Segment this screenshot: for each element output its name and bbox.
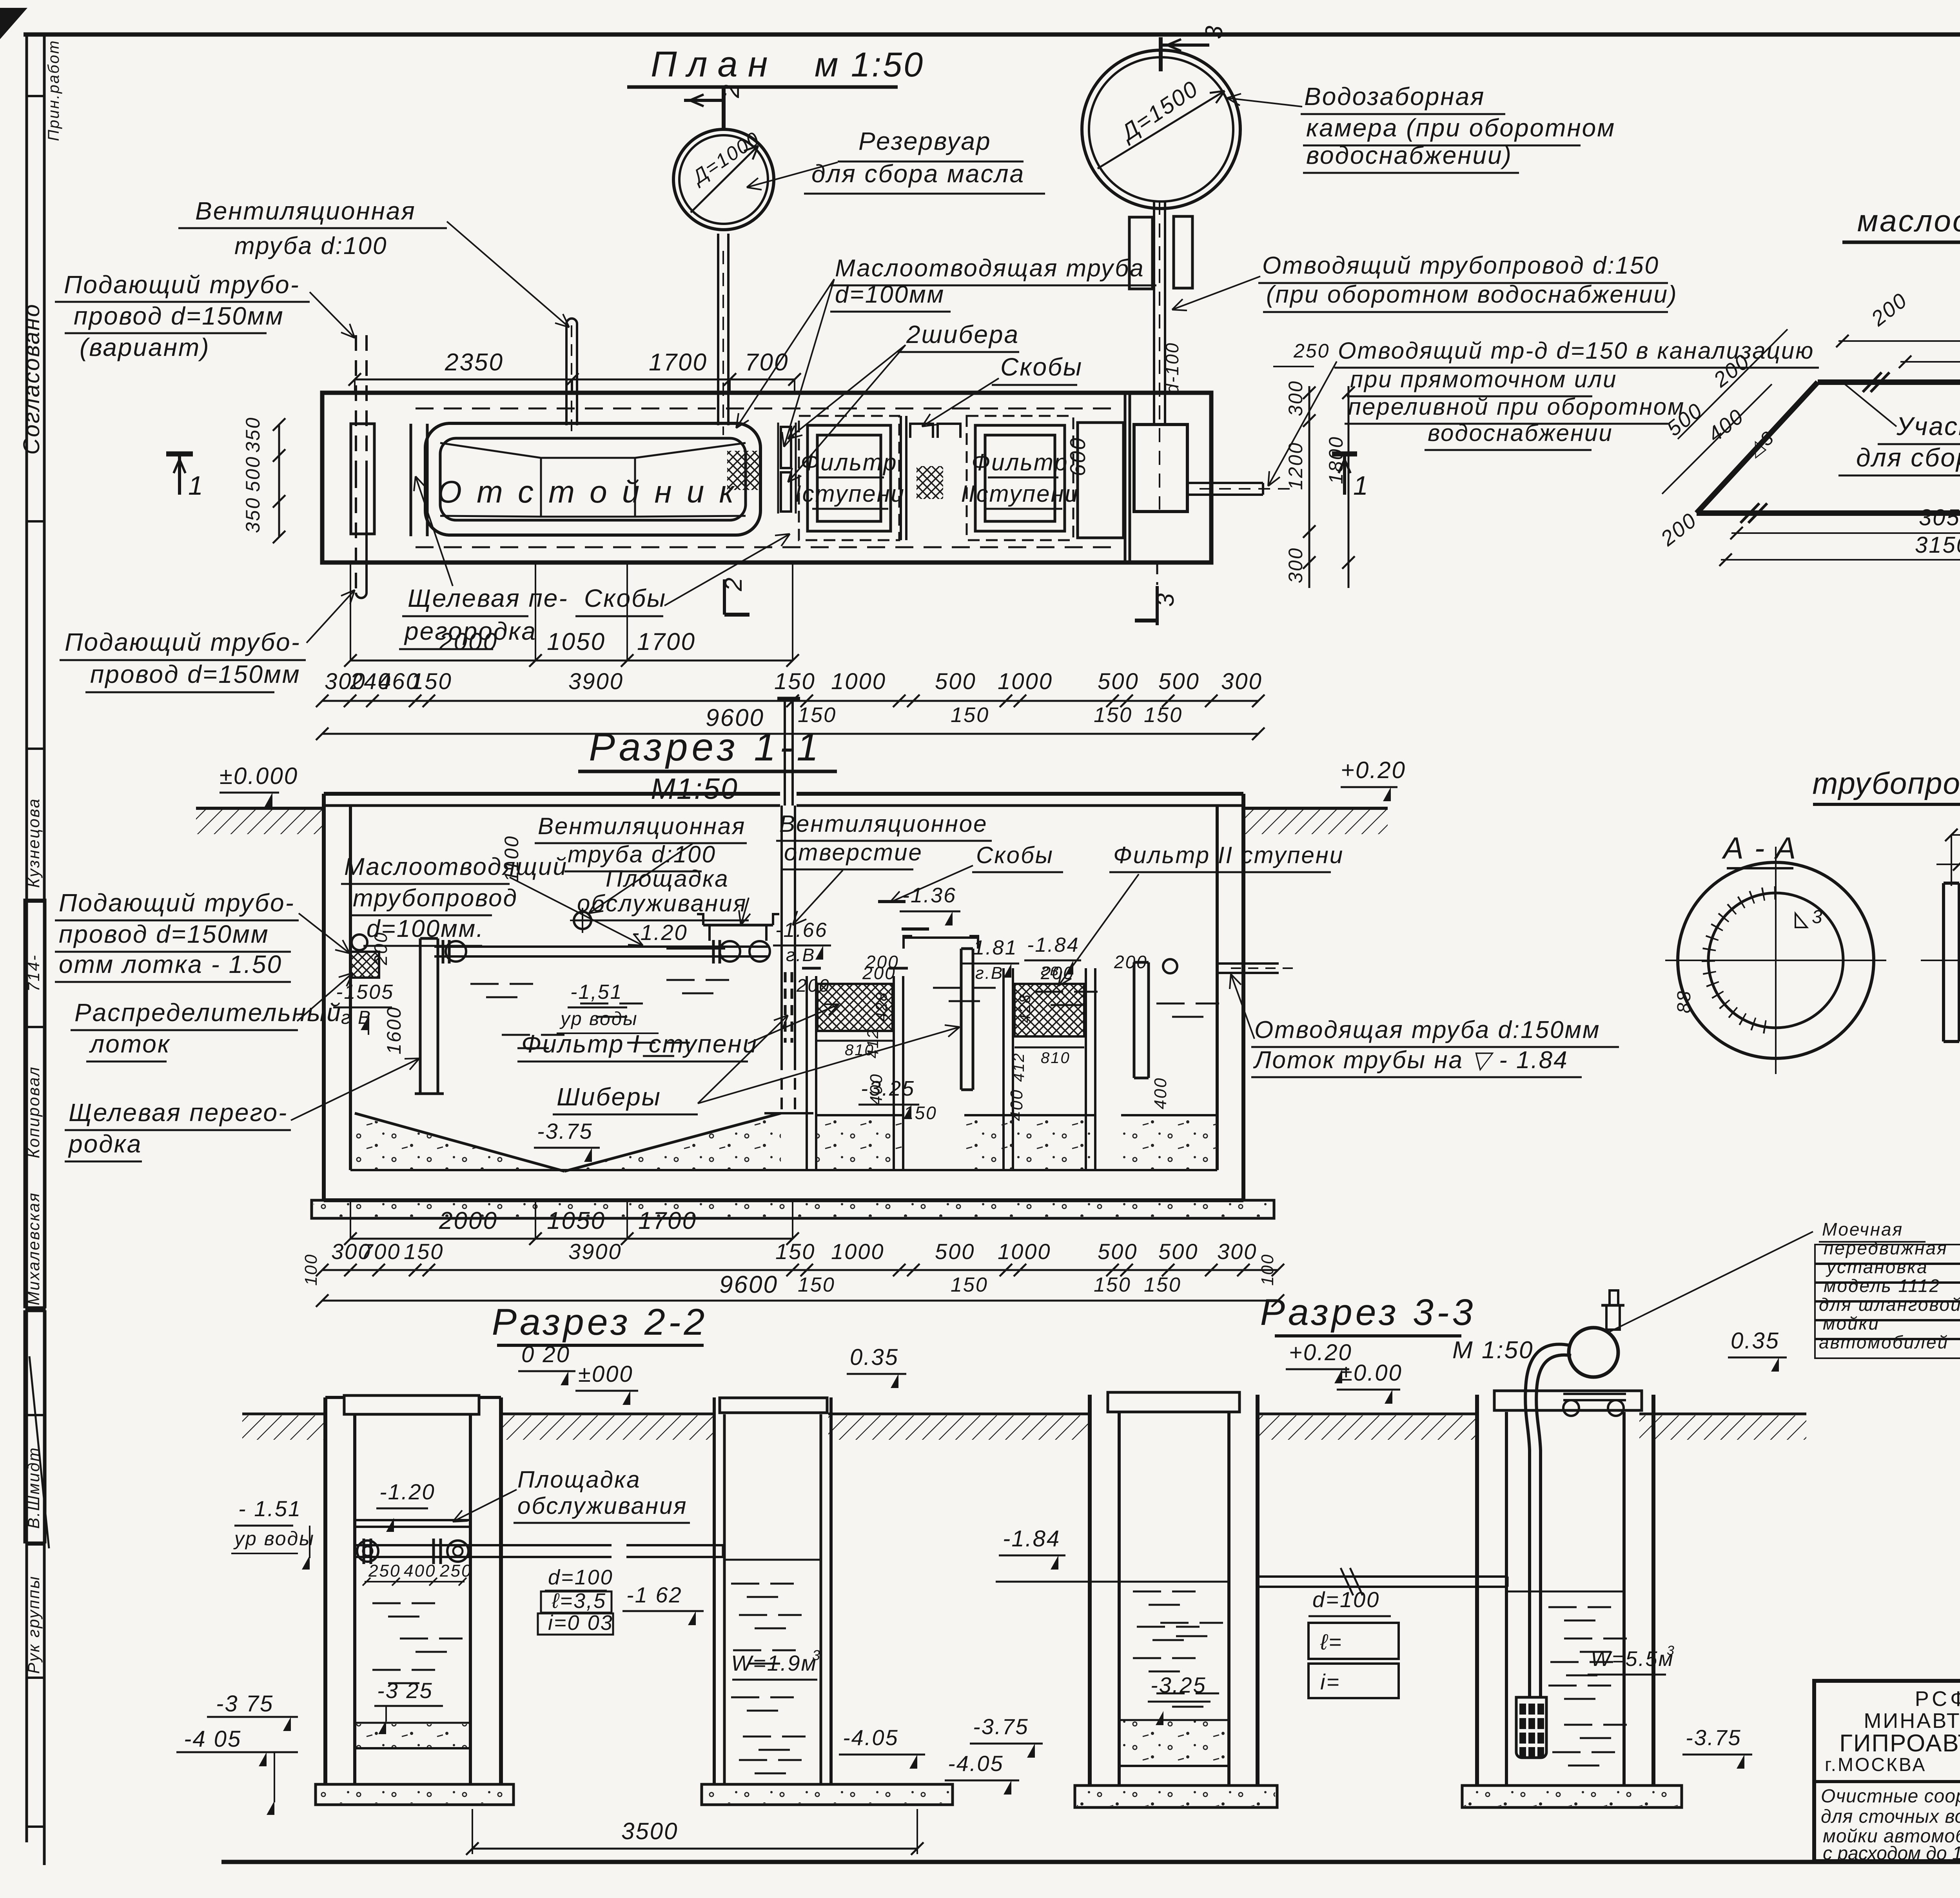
plan gate rects xyxy=(781,427,791,468)
svg-text:при прямоточном или: при прямоточном или xyxy=(1350,366,1617,392)
svg-text:с расходом до 1,5л/сек: с расходом до 1,5л/сек xyxy=(1823,1843,1960,1864)
svg-text:водоснабжении): водоснабжении) xyxy=(1306,141,1512,169)
section 2-2 platform xyxy=(355,1519,470,1521)
svg-text:-3 25: -3 25 xyxy=(377,1678,433,1703)
svg-text:автомобилей: автомобилей xyxy=(1819,1332,1949,1352)
svg-text:9600: 9600 xyxy=(719,1271,778,1298)
svg-text:500: 500 xyxy=(935,1239,975,1264)
svg-text:для сбора масла: для сбора масла xyxy=(811,160,1025,188)
svg-text:маслоотводящего трубопровода: маслоотводящего трубопровода xyxy=(1857,203,1960,238)
svg-text:412: 412 xyxy=(1010,1052,1027,1082)
svg-text:М 1:50: М 1:50 xyxy=(1452,1337,1534,1364)
svg-text:Рук группы: Рук группы xyxy=(24,1575,43,1674)
svg-text:-1.20: -1.20 xyxy=(379,1479,436,1504)
svg-text:1050: 1050 xyxy=(547,1207,606,1234)
svg-text:150: 150 xyxy=(951,703,989,727)
svg-text:установка: установка xyxy=(1826,1257,1928,1277)
svg-text:1: 1 xyxy=(1353,471,1369,501)
svg-text:150: 150 xyxy=(411,669,452,694)
svg-text:500: 500 xyxy=(1158,669,1200,694)
svg-text:Копировал: Копировал xyxy=(24,1066,43,1158)
svg-text:Вентиляционная: Вентиляционная xyxy=(538,813,746,839)
svg-text:Кузнецова: Кузнецова xyxy=(24,798,43,888)
svg-text:провод d=150мм: провод d=150мм xyxy=(74,302,284,330)
svg-text:3900: 3900 xyxy=(568,1239,622,1264)
svg-text:(при оборотном водоснабжении): (при оборотном водоснабжении) xyxy=(1266,281,1678,308)
svg-text:-1.66: -1.66 xyxy=(775,919,828,942)
svg-text:d=100: d=100 xyxy=(548,1566,613,1589)
svg-text:W=1.9м: W=1.9м xyxy=(731,1651,817,1675)
sheet top border xyxy=(24,33,1960,37)
section 1-1 water dashes right xyxy=(933,987,961,989)
plan mid wall and clips xyxy=(900,416,902,540)
section 1-1 water dashes settler xyxy=(470,983,499,985)
svg-text:150: 150 xyxy=(798,703,837,727)
svg-text:1600: 1600 xyxy=(383,1006,405,1054)
svg-text:ℓ=3,5: ℓ=3,5 xyxy=(552,1589,606,1613)
svg-text:родка: родка xyxy=(68,1130,142,1158)
svg-text:-1505: -1505 xyxy=(336,981,394,1003)
plan right compartment xyxy=(1078,423,1123,538)
plan section mark 2 top xyxy=(722,87,726,130)
section 1-1 ground right xyxy=(1243,807,1388,810)
svg-text:Фильтр: Фильтр xyxy=(800,449,897,475)
svg-text:для сточных вод от: для сточных вод от xyxy=(1821,1806,1960,1827)
section 1-1 shiber gate 1 xyxy=(784,972,787,1043)
svg-text:Щелевая пе-: Щелевая пе- xyxy=(408,584,568,612)
svg-text:1000: 1000 xyxy=(831,669,886,694)
section 1-1 collar above filter II xyxy=(904,936,912,949)
svg-text:Вентиляционное: Вентиляционное xyxy=(779,811,987,837)
svg-text:150: 150 xyxy=(1094,703,1132,727)
svg-text:М1:50: М1:50 xyxy=(651,772,738,805)
svg-text:600: 600 xyxy=(1065,437,1090,476)
svg-text:Подающий трубо-: Подающий трубо- xyxy=(64,270,300,299)
section 2-2 right tank xyxy=(713,1397,716,1784)
svg-text:3050: 3050 xyxy=(1919,505,1960,530)
svg-text:трубопровод: трубопровод xyxy=(353,885,518,912)
plan outlet pipe right xyxy=(1187,482,1263,484)
section 1-1 vent circle xyxy=(574,912,591,929)
section 1-1 vent shaft and pipe xyxy=(784,699,786,806)
svg-text:Очистные сооружения: Очистные сооружения xyxy=(1821,1786,1960,1807)
svg-text:3: 3 xyxy=(1152,592,1179,607)
svg-text:±000: ±000 xyxy=(578,1361,633,1387)
section 2-2 left tank walls xyxy=(323,1397,327,1784)
svg-text:150: 150 xyxy=(798,1274,835,1296)
detail dims xyxy=(1951,834,1960,836)
svg-text:Фильтр I ступени: Фильтр I ступени xyxy=(521,1030,758,1058)
section 1-1 gate 2 bar xyxy=(960,949,963,1090)
section 2-2 footing right xyxy=(702,1784,953,1805)
svg-text:d=100мм.: d=100мм. xyxy=(367,915,484,942)
plan crosshatch patch 2 xyxy=(916,466,943,499)
svg-text:Маслоотводящий: Маслоотводящий xyxy=(344,853,568,880)
section 1-1 filter I block xyxy=(817,984,893,1031)
schema dim 2650 xyxy=(1900,361,1960,363)
plan vent pipe above xyxy=(566,319,577,426)
svg-text:2: 2 xyxy=(717,83,744,98)
svg-text:ур воды: ур воды xyxy=(559,1009,638,1029)
plan dims below row1 xyxy=(350,660,793,662)
section 3-3 left tank xyxy=(1088,1395,1092,1785)
svg-text:м 1:50: м 1:50 xyxy=(815,45,924,84)
section 2-2 footing left xyxy=(316,1784,514,1805)
detail pipe bottom wall xyxy=(1959,1011,1960,1026)
plan left vertical dims xyxy=(278,425,280,537)
section 1-1 filter II walls xyxy=(1002,968,1005,1170)
svg-text:+0.20: +0.20 xyxy=(1341,757,1406,783)
svg-text:(вариант): (вариант) xyxy=(80,333,210,361)
svg-text:МИНАВТОТРАНС: МИНАВТОТРАНС xyxy=(1864,1709,1960,1733)
svg-text:-4 05: -4 05 xyxy=(184,1726,241,1752)
svg-text:переливной при оборотном: переливной при оборотном xyxy=(1348,394,1685,420)
svg-text:-1 62: -1 62 xyxy=(626,1582,682,1607)
svg-text:250: 250 xyxy=(1293,340,1330,362)
svg-text:Подающий трубо-: Подающий трубо- xyxy=(65,628,301,656)
svg-text:0.35: 0.35 xyxy=(1731,1328,1780,1354)
svg-text:мойки: мойки xyxy=(1823,1313,1880,1334)
svg-text:-3.75: -3.75 xyxy=(537,1119,593,1143)
title block outer xyxy=(1814,1681,1960,1861)
svg-text:3: 3 xyxy=(1201,25,1228,39)
section 1-1 ground left xyxy=(196,807,324,810)
svg-text:Площадка: Площадка xyxy=(517,1466,641,1493)
svg-text:Распределительный: Распределительный xyxy=(74,998,342,1027)
svg-text:2350: 2350 xyxy=(445,349,504,376)
svg-text:Отводящая труба d:150мм: Отводящая труба d:150мм xyxy=(1254,1016,1601,1043)
left margin strip lines xyxy=(25,34,28,1842)
svg-text:Прин.работ: Прин.работ xyxy=(45,40,62,141)
plan filter II box xyxy=(967,416,1073,540)
svg-text:камера (при оборотном: камера (при оборотном xyxy=(1306,114,1615,142)
svg-text:200: 200 xyxy=(1114,952,1148,972)
plan section mark 2 bottom xyxy=(723,579,726,615)
svg-text:-3.25: -3.25 xyxy=(1151,1673,1207,1697)
svg-text:Скобы: Скобы xyxy=(584,584,666,612)
svg-text:-1.36: -1.36 xyxy=(902,884,956,907)
section 1-1 trough partition xyxy=(419,938,422,1094)
section 2-2 pipe with valves xyxy=(355,1544,612,1546)
svg-text:200: 200 xyxy=(796,975,830,996)
svg-text:2000: 2000 xyxy=(439,1207,498,1234)
section 3-3 hose strainer xyxy=(1516,1697,1546,1758)
svg-text:Маслоотводящая труба: Маслоотводящая труба xyxy=(835,255,1145,282)
svg-text:1700: 1700 xyxy=(649,349,708,376)
svg-text:1000: 1000 xyxy=(831,1239,885,1264)
svg-text:труба d:100: труба d:100 xyxy=(234,232,387,259)
svg-text:Скобы: Скобы xyxy=(976,842,1054,868)
svg-text:350: 350 xyxy=(242,497,264,533)
svg-text:Отводящий трубопровод d:150: Отводящий трубопровод d:150 xyxy=(1262,252,1659,279)
svg-text:i=0 03: i=0 03 xyxy=(548,1611,613,1635)
plan dims below row2 xyxy=(322,700,1258,702)
svg-text:250: 250 xyxy=(439,1561,472,1580)
section 1-1 settler slope and gravel xyxy=(355,1115,781,1172)
svg-text:-4.05: -4.05 xyxy=(843,1725,899,1750)
schema dim 2750 xyxy=(1838,340,1960,342)
section 3-3 ground xyxy=(1012,1413,1090,1415)
svg-text:1000: 1000 xyxy=(998,1239,1051,1264)
svg-text:700: 700 xyxy=(745,349,789,376)
plan settler Otstoynik walls xyxy=(425,423,760,535)
section 1-1 service platform xyxy=(703,924,773,927)
plan riser pipe from D1000 xyxy=(717,234,719,425)
section 1-1 footing xyxy=(312,1200,1274,1218)
svg-text:отм лотка - 1.50: отм лотка - 1.50 xyxy=(59,950,282,978)
svg-text:Водозаборная: Водозаборная xyxy=(1304,82,1485,111)
svg-text:3500: 3500 xyxy=(621,1818,678,1844)
svg-text:0 20: 0 20 xyxy=(521,1342,570,1367)
plan section mark 1 left xyxy=(166,452,193,457)
section 3-3 pipe between tanks xyxy=(1258,1575,1507,1578)
section 3-3 right tank xyxy=(1475,1395,1479,1785)
svg-text:0.35: 0.35 xyxy=(850,1345,899,1370)
detail center line xyxy=(1921,960,1960,961)
svg-text:500: 500 xyxy=(1098,669,1139,694)
plan formwork dashed lines xyxy=(416,408,1121,410)
plan top dimension line xyxy=(355,379,795,381)
svg-text:-4.05: -4.05 xyxy=(948,1751,1004,1776)
svg-text:Iступени: Iступени xyxy=(795,481,905,507)
svg-text:i=: i= xyxy=(1320,1669,1340,1694)
plan crosshatch patch settler xyxy=(727,451,760,490)
section 1-1 dims below xyxy=(350,1238,793,1240)
svg-text:ур воды: ур воды xyxy=(233,1528,315,1550)
svg-text:г.В: г.В xyxy=(975,964,1004,983)
svg-text:d=100: d=100 xyxy=(1312,1587,1380,1612)
svg-text:1800: 1800 xyxy=(1325,436,1347,484)
svg-text:88: 88 xyxy=(1674,990,1695,1013)
svg-text:300: 300 xyxy=(1217,1239,1257,1264)
svg-text:А - А: А - А xyxy=(1722,831,1797,865)
svg-text:отверстие: отверстие xyxy=(784,839,923,866)
svg-text:150: 150 xyxy=(1144,703,1183,727)
svg-text:1050: 1050 xyxy=(547,628,606,655)
detail pipe flanges xyxy=(1942,883,1945,1042)
plan reservoir circle D1000 xyxy=(673,129,774,230)
svg-text:1700: 1700 xyxy=(637,628,696,655)
svg-text:Скобы: Скобы xyxy=(1000,353,1083,381)
plan right vertical dim chain xyxy=(1308,386,1310,588)
plan distribution trough xyxy=(351,424,374,534)
svg-text:400: 400 xyxy=(1151,1077,1170,1109)
svg-text:d=100мм: d=100мм xyxy=(835,281,945,308)
svg-text:3: 3 xyxy=(1667,1643,1675,1658)
svg-text:-1.81: -1.81 xyxy=(965,936,1018,959)
svg-text:428: 428 xyxy=(1016,993,1034,1023)
svg-text:100: 100 xyxy=(1258,1254,1277,1286)
schema dim 3150 xyxy=(1721,559,1960,561)
svg-text:регородка: регородка xyxy=(404,617,537,645)
svg-text:W=5.5м: W=5.5м xyxy=(1591,1647,1674,1671)
svg-text:РСФСР: РСФСР xyxy=(1915,1687,1960,1711)
svg-text:3900: 3900 xyxy=(568,669,624,694)
svg-text:810: 810 xyxy=(1041,1049,1071,1067)
section 1-1 right compartments gravel xyxy=(817,1115,904,1170)
svg-text:2шибера: 2шибера xyxy=(906,320,1019,348)
section 2-2 ground xyxy=(242,1413,325,1415)
plan outlet chamber xyxy=(1134,425,1187,512)
section 1-1 tank outer walls xyxy=(324,792,780,796)
svg-text:150: 150 xyxy=(774,669,816,694)
plan settler bottom slope projection lines xyxy=(440,443,541,458)
svg-text:обслуживания: обслуживания xyxy=(577,890,747,916)
svg-text:Моечная: Моечная xyxy=(1822,1219,1903,1239)
plan left end wall xyxy=(410,424,412,536)
svg-text:Площадка: Площадка xyxy=(606,866,729,892)
svg-text:300: 300 xyxy=(1221,669,1263,694)
svg-text:-1.84: -1.84 xyxy=(1003,1526,1060,1551)
svg-text:Вентиляционная: Вентиляционная xyxy=(195,197,416,225)
section 1-1 filter II block xyxy=(1014,984,1084,1036)
svg-text:для шланговой: для шланговой xyxy=(1819,1294,1960,1315)
svg-text:2: 2 xyxy=(720,577,747,592)
plan vertical pipe below to section 3 xyxy=(1156,563,1158,585)
svg-text:труба d:100: труба d:100 xyxy=(568,841,716,867)
svg-text:Разрез 2-2: Разрез 2-2 xyxy=(492,1301,708,1343)
section 3-3 hose xyxy=(1525,1344,1570,1697)
svg-text:-3.75: -3.75 xyxy=(1686,1725,1742,1750)
svg-text:150: 150 xyxy=(404,1239,444,1264)
svg-text:400: 400 xyxy=(404,1561,436,1580)
svg-text:лоток: лоток xyxy=(89,1030,171,1058)
schema break marks xyxy=(1863,372,1882,392)
section 1-1 oil pipe xyxy=(434,945,769,948)
svg-text:провод d=150мм: провод d=150мм xyxy=(90,660,301,688)
svg-text:Лоток трубы на ▽ - 1.84: Лоток трубы на ▽ - 1.84 xyxy=(1253,1047,1568,1074)
svg-text:±0.000: ±0.000 xyxy=(220,763,298,789)
schema left slanted dims xyxy=(1678,329,1788,439)
schema pipeline parallelogram xyxy=(1818,379,1960,385)
svg-text:ℓ=: ℓ= xyxy=(1320,1629,1343,1654)
scan corner artifact xyxy=(0,8,27,39)
plan intake chamber circle D1500 xyxy=(1082,50,1240,209)
section 3-3 pump leader xyxy=(1609,1232,1813,1332)
svg-text:200: 200 xyxy=(865,952,899,972)
section 1-1 gate 3 bar xyxy=(1133,962,1136,1078)
plan section mark 1 right xyxy=(1332,452,1357,457)
svg-text:- 1.51: - 1.51 xyxy=(238,1496,301,1521)
svg-text:ГИПРОАВТОТРАНС: ГИПРОАВТОТРАНС xyxy=(1839,1730,1960,1757)
plan inlet pipe dashed top xyxy=(355,335,357,472)
section 1-1 inlet assembly xyxy=(350,952,379,978)
svg-text:-1.20: -1.20 xyxy=(632,920,688,945)
plan dims below row3 xyxy=(322,733,1258,735)
svg-text:-3.25: -3.25 xyxy=(861,1077,915,1100)
svg-text:Участск трубопровида: Участск трубопровида xyxy=(1896,412,1960,441)
svg-text:500: 500 xyxy=(1098,1239,1138,1264)
svg-text:Михалевская: Михалевская xyxy=(24,1192,43,1305)
svg-text:Разрез 1-1: Разрез 1-1 xyxy=(589,725,822,769)
svg-text:Щелевая перего-: Щелевая перего- xyxy=(69,1098,288,1127)
section 3-3 washing pump xyxy=(1569,1328,1618,1377)
svg-text:3150: 3150 xyxy=(1915,532,1960,558)
svg-text:Фильтр: Фильтр xyxy=(971,449,1068,475)
svg-text:провод d=150мм: провод d=150мм xyxy=(59,920,269,948)
svg-text:модель 1112: модель 1112 xyxy=(1824,1276,1940,1296)
svg-text:IIступени: IIступени xyxy=(961,481,1079,507)
svg-text:-3.75: -3.75 xyxy=(973,1714,1029,1739)
svg-text:428: 428 xyxy=(873,991,890,1021)
svg-text:500: 500 xyxy=(242,456,264,492)
plan outer walls xyxy=(322,393,1211,563)
svg-text:300: 300 xyxy=(1285,547,1307,583)
svg-text:100: 100 xyxy=(301,1254,321,1286)
svg-text:трубопровода с прорезью для: трубопровода с прорезью для сбора масла xyxy=(1812,766,1960,800)
svg-text:300: 300 xyxy=(1285,380,1307,416)
svg-text:О т с т о й н и к: О т с т о й н и к xyxy=(437,474,737,509)
svg-text:гв: гв xyxy=(1041,960,1060,979)
svg-text:3: 3 xyxy=(812,1647,821,1663)
detail pipe top wall xyxy=(1959,910,1960,925)
section 1-1 exit pipe xyxy=(1217,962,1279,965)
svg-text:150: 150 xyxy=(775,1239,815,1264)
svg-text:Фильтр II ступени: Фильтр II ступени xyxy=(1113,842,1344,868)
svg-text:3: 3 xyxy=(1812,907,1824,927)
svg-text:±0.00: ±0.00 xyxy=(1340,1360,1403,1386)
svg-text:350: 350 xyxy=(242,417,264,453)
svg-text:-1.84: -1.84 xyxy=(1027,934,1080,956)
svg-text:1: 1 xyxy=(188,471,204,501)
plan riser pipe to intake chamber xyxy=(1153,201,1155,425)
svg-text:150: 150 xyxy=(1144,1274,1181,1296)
svg-text:передвижная: передвижная xyxy=(1824,1238,1948,1258)
svg-text:-1,51: -1,51 xyxy=(570,981,623,1003)
section 1-1 filter I walls xyxy=(806,976,808,1170)
plan section mark 3 top xyxy=(1159,37,1163,71)
svg-text:1700: 1700 xyxy=(638,1207,697,1234)
svg-text:Разрез 3-3: Разрез 3-3 xyxy=(1260,1292,1476,1333)
svg-text:Шиберы: Шиберы xyxy=(557,1083,661,1111)
section 2-2 water and marks left tank xyxy=(372,1602,401,1604)
svg-text:714-: 714- xyxy=(24,954,43,992)
svg-text:Подающий трубо-: Подающий трубо- xyxy=(59,889,295,917)
svg-text:водоснабжении: водоснабжении xyxy=(1428,420,1613,446)
svg-text:500: 500 xyxy=(935,669,976,694)
plan filter I box xyxy=(799,416,899,540)
svg-text:1000: 1000 xyxy=(998,669,1053,694)
svg-text:500: 500 xyxy=(1158,1239,1198,1264)
svg-text:150: 150 xyxy=(1094,1274,1131,1296)
svg-text:г.МОСКВА: г.МОСКВА xyxy=(1825,1755,1926,1775)
svg-text:обслуживания: обслуживания xyxy=(517,1493,687,1519)
svg-text:250: 250 xyxy=(368,1561,401,1580)
svg-text:План: План xyxy=(651,44,778,84)
svg-text:г.В: г.В xyxy=(786,945,815,965)
svg-text:700: 700 xyxy=(361,1239,401,1264)
plan inlet pipe dashed bottom xyxy=(355,472,357,596)
svg-text:Резервуар: Резервуар xyxy=(858,127,991,155)
schema dim 3050 xyxy=(1731,532,1960,534)
svg-text:150: 150 xyxy=(951,1274,988,1296)
svg-text:-3 75: -3 75 xyxy=(216,1691,274,1717)
svg-text:Согласовано: Согласовано xyxy=(19,303,44,455)
sheet bottom border xyxy=(221,1860,1960,1864)
svg-text:для сбора масла см деталь: для сбора масла см деталь xyxy=(1856,443,1960,472)
